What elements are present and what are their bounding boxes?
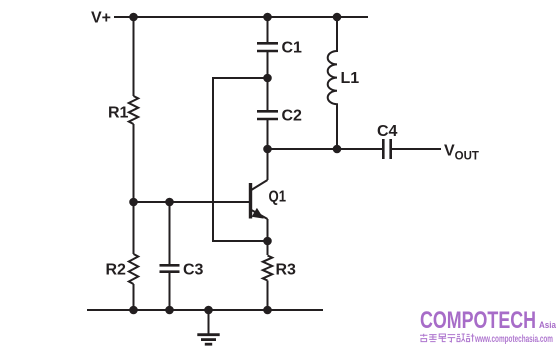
wire output node to C4 bbox=[337, 148, 382, 150]
wire R1 to base node bbox=[133, 124, 135, 202]
resistor R3 bbox=[263, 256, 272, 281]
wire feedback tap horizontal bbox=[213, 78, 268, 241]
ground bbox=[197, 310, 219, 344]
wire emitter down to R3 bbox=[267, 241, 269, 255]
svg-text:R1: R1 bbox=[108, 105, 129, 122]
svg-text:R3: R3 bbox=[276, 262, 297, 279]
svg-text:C2: C2 bbox=[282, 108, 303, 125]
svg-text:Asia: Asia bbox=[539, 320, 557, 331]
wire base node down to R2 bbox=[133, 202, 135, 254]
node R3 bottom bbox=[263, 306, 272, 315]
node base divider bbox=[129, 198, 138, 207]
svg-text:L1: L1 bbox=[341, 70, 360, 87]
resistor R2 bbox=[129, 254, 138, 284]
logo tagline CJK 智慧電子設計 bbox=[420, 334, 474, 342]
node C1/C2 tap bbox=[263, 74, 272, 83]
node V+ junction bbox=[129, 13, 138, 22]
node output bbox=[333, 145, 342, 154]
svg-text:C4: C4 bbox=[377, 123, 398, 140]
svg-text:COMPOTECH: COMPOTECH bbox=[420, 307, 536, 334]
capacitor C2 bbox=[257, 110, 278, 113]
node L1 top bbox=[333, 13, 342, 22]
node emitter bbox=[263, 237, 272, 246]
node C3 top bbox=[165, 198, 174, 207]
svg-text:VOUT: VOUT bbox=[444, 143, 479, 163]
wire collector node to L1 bottom bbox=[268, 148, 338, 150]
wire bottom rail bbox=[87, 309, 323, 311]
node R2 bottom bbox=[129, 306, 138, 315]
node collector bbox=[263, 145, 272, 154]
node C1 top bbox=[263, 13, 272, 22]
svg-text:Q1: Q1 bbox=[269, 189, 287, 206]
capacitor C1 bbox=[257, 42, 278, 45]
inductor L1 bbox=[328, 17, 337, 149]
wire top rail bbox=[114, 16, 368, 18]
svg-text:R2: R2 bbox=[106, 262, 127, 279]
svg-text:www.compotechasia.com: www.compotechasia.com bbox=[474, 334, 553, 345]
wire C1 top stub bbox=[267, 17, 269, 43]
svg-text:V+: V+ bbox=[91, 10, 111, 27]
wire C3 stub bbox=[169, 202, 171, 265]
wire C4 to Vout bbox=[391, 148, 441, 150]
wire R3 to bottom rail bbox=[267, 281, 269, 311]
wire left branch x=133 bbox=[133, 17, 135, 96]
node ground bbox=[204, 306, 213, 315]
wire base horizontal bbox=[134, 201, 251, 203]
resistor R1 bbox=[129, 96, 138, 124]
svg-text:C3: C3 bbox=[183, 262, 204, 279]
svg-text:C1: C1 bbox=[282, 40, 303, 57]
capacitor C3 bbox=[160, 264, 180, 267]
capacitor C4 bbox=[382, 139, 385, 159]
wire R2 to bottom rail bbox=[133, 284, 135, 310]
node C3 bottom bbox=[165, 306, 174, 315]
wire C2 top stub bbox=[267, 78, 269, 111]
transistor Q1 bbox=[251, 149, 268, 241]
